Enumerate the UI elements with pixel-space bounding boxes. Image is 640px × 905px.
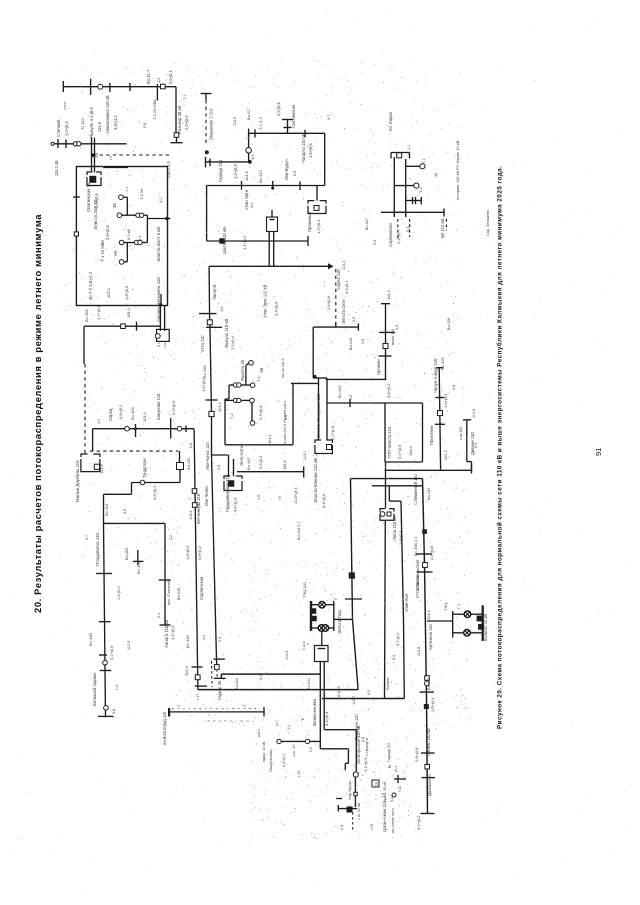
svg-text:7: 7 — [237, 708, 241, 710]
svg-text:Вл.440: Вл.440 — [349, 338, 353, 350]
svg-text:5: 5 — [240, 720, 244, 722]
svg-text:Т-2 25 МВА: Т-2 25 МВА — [152, 99, 157, 120]
svg-text:113,2: 113,2 — [217, 402, 222, 412]
svg-text:Вл.454: Вл.454 — [130, 406, 135, 420]
svg-text:0,4: 0,4 — [474, 443, 478, 448]
svg-text:3,4: 3,4 — [249, 202, 254, 208]
svg-text:Вл.441: Вл.441 — [307, 678, 311, 690]
svg-text:Элиста ТЭЦ: Элиста ТЭЦ — [337, 609, 342, 634]
svg-text:КалмЭС 10 кВ: КалмЭС 10 кВ — [483, 614, 488, 641]
svg-text:Сар. Зельмень: Сар. Зельмень — [486, 210, 490, 236]
svg-text:Вл.442: Вл.442 — [337, 384, 342, 398]
svg-text:0,8: 0,8 — [143, 123, 147, 128]
svg-text:Элиста Сити: Элиста Сити — [341, 299, 346, 324]
svg-text:Яшкульская: Яшкульская — [268, 750, 273, 772]
svg-text:Тундутово: Тундутово — [142, 457, 147, 478]
svg-text:110,9: 110,9 — [408, 446, 413, 456]
svg-text:12,8+j3,4: 12,8+j3,4 — [293, 487, 298, 504]
svg-text:112,4: 112,4 — [106, 288, 111, 298]
svg-text:Г: Г — [334, 598, 338, 600]
svg-text:на Волгоград 110: на Волгоград 110 — [162, 711, 167, 745]
svg-text:1,8+j0,5: 1,8+j0,5 — [337, 686, 341, 700]
svg-text:0,8+j0,2: 0,8+j0,2 — [118, 404, 123, 419]
svg-text:Вл.448: Вл.448 — [88, 632, 93, 646]
svg-text:Вл.452: Вл.452 — [136, 560, 141, 574]
svg-text:Состинская: Состинская — [291, 104, 296, 128]
svg-text:ТЭЦ 110: ТЭЦ 110 — [302, 581, 307, 598]
svg-text:0,6+j0,1: 0,6+j0,1 — [152, 485, 157, 500]
svg-text:0,6: 0,6 — [373, 240, 377, 245]
svg-text:1,1+j0,3: 1,1+j0,3 — [170, 625, 175, 640]
svg-text:Цаган-Аман 110: Цаган-Аман 110 — [382, 800, 387, 832]
svg-text:0,4: 0,4 — [340, 825, 344, 830]
svg-text:Джалыково: Джалыково — [427, 774, 432, 796]
svg-text:на прим. 110 кВ РУ Наран 10 кВ: на прим. 110 кВ РУ Наран 10 кВ — [455, 140, 460, 200]
svg-text:прим. 10 кВ: прим. 10 кВ — [262, 741, 266, 762]
svg-text:Вл.415: Вл.415 — [258, 169, 263, 183]
svg-text:Лола 110 кВ: Лола 110 кВ — [392, 516, 397, 540]
svg-text:Улан-Хол: Улан-Хол — [404, 593, 409, 612]
svg-text:0,4: 0,4 — [259, 675, 263, 680]
svg-text:Ики-Бурул: Ики-Бурул — [284, 159, 289, 180]
svg-text:Приманыч: Приманыч — [307, 212, 312, 232]
svg-text:Яшкуль 4,1-j0,9: Яшкуль 4,1-j0,9 — [89, 107, 94, 138]
svg-text:115,2 кВ: 115,2 кВ — [54, 160, 59, 176]
svg-text:0,9+j0,2: 0,9+j0,2 — [416, 815, 421, 830]
svg-text:Николаевка 110 кВ: Николаевка 110 кВ — [105, 95, 110, 133]
svg-text:1,4: 1,4 — [395, 325, 399, 330]
svg-text:1,5: 1,5 — [257, 495, 261, 500]
svg-text:4: 4 — [232, 708, 236, 710]
svg-text:Вл.41-7: Вл.41-7 — [146, 69, 151, 84]
svg-text:0,3: 0,3 — [406, 227, 410, 232]
svg-text:Приютное: Приютное — [429, 425, 434, 445]
svg-text:Вл.443 0,7: Вл.443 0,7 — [297, 522, 301, 540]
svg-text:91: 91 — [594, 448, 603, 456]
svg-text:Разъезд 48 кВ: Разъезд 48 кВ — [177, 106, 182, 134]
svg-text:Ханата 110 кВ: Ханата 110 кВ — [164, 620, 169, 648]
svg-text:от шин 2x2,5 Яшалта расч.: от шин 2x2,5 Яшалта расч. — [283, 400, 287, 445]
svg-text:5: 5 — [213, 720, 217, 722]
svg-text:4,2: 4,2 — [97, 419, 101, 424]
svg-text:Т-1 10 МВА: Т-1 10 МВА — [100, 240, 105, 262]
svg-text:Т-2 16: Т-2 16 — [139, 189, 144, 200]
svg-text:1,3+j0,4: 1,3+j0,4 — [258, 405, 263, 420]
svg-text:ТЭЦ: ТЭЦ — [443, 603, 448, 611]
svg-text:4: 4 — [215, 708, 219, 710]
svg-text:1,1+j0,2: 1,1+j0,2 — [242, 235, 247, 250]
svg-text:0,9: 0,9 — [123, 509, 127, 514]
svg-text:т.3: т.3 — [109, 156, 113, 160]
svg-text:4: 4 — [193, 708, 197, 710]
svg-text:т.9: т.9 — [278, 496, 282, 500]
svg-text:112,7: 112,7 — [352, 696, 356, 705]
svg-text:Вл.417: Вл.417 — [247, 108, 251, 120]
svg-text:113,6: 113,6 — [282, 460, 287, 470]
svg-text:1,2: 1,2 — [156, 78, 161, 83]
svg-text:Т-2: Т-2 — [230, 413, 234, 419]
svg-text:1,2+j0,4: 1,2+j0,4 — [64, 121, 69, 136]
svg-text:Сарпинская: Сарпинская — [388, 222, 393, 247]
svg-text:115,4: 115,4 — [386, 290, 391, 300]
svg-text:1,7+j0,4: 1,7+j0,4 — [96, 305, 101, 320]
svg-text:114,2: 114,2 — [342, 261, 346, 270]
svg-text:2,4+j0,7: 2,4+j0,7 — [396, 229, 401, 244]
svg-text:Элиста Зап 35: Элиста Зап 35 — [93, 199, 98, 230]
svg-text:0,9-j0,1: 0,9-j0,1 — [344, 280, 349, 294]
svg-text:Большой Царын: Большой Царын — [92, 672, 97, 706]
svg-text:2,8+j0,8: 2,8+j0,8 — [414, 747, 419, 762]
svg-text:Чагорта: Чагорта — [212, 284, 217, 300]
svg-text:0,9+j0,2: 0,9+j0,2 — [197, 546, 202, 560]
svg-text:о: о — [188, 708, 192, 710]
svg-text:113,4: 113,4 — [189, 511, 193, 520]
svg-text:1,9: 1,9 — [250, 155, 255, 160]
svg-text:8,4+j2,6: 8,4+j2,6 — [321, 493, 326, 508]
svg-text:Сарпинская: Сарпинская — [199, 577, 204, 600]
svg-text:0,3+j0,1: 0,3+j0,1 — [282, 753, 286, 767]
svg-text:Чагорта 110 кВ: Чагорта 110 кВ — [301, 133, 306, 163]
svg-text:0,7: 0,7 — [326, 115, 331, 120]
svg-text:2,0+j0,5: 2,0+j0,5 — [171, 400, 176, 415]
svg-text:1,4+j0,3: 1,4+j0,3 — [233, 164, 238, 179]
svg-text:7: 7 — [226, 708, 230, 710]
svg-text:114,6: 114,6 — [97, 121, 102, 132]
svg-text:0,4: 0,4 — [157, 613, 161, 618]
svg-text:0,5: 0,5 — [367, 690, 371, 695]
svg-text:0,8: 0,8 — [112, 709, 116, 714]
svg-text:Г-1: Г-1 — [457, 604, 461, 609]
svg-text:3,1+j0,9: 3,1+j0,9 — [397, 444, 402, 459]
svg-text:1,2: 1,2 — [243, 705, 247, 710]
svg-text:113,9: 113,9 — [233, 117, 237, 126]
svg-text:т.49: т.49 — [297, 771, 301, 777]
svg-text:1,1+j0,3: 1,1+j0,3 — [363, 757, 368, 772]
svg-text:2,0: 2,0 — [352, 317, 356, 322]
svg-text:Вл.438 2,2: Вл.438 2,2 — [413, 536, 418, 556]
svg-text:Плодовитое 110: Плодовитое 110 — [95, 532, 100, 566]
svg-text:2,8+j0,8: 2,8+j0,8 — [326, 296, 331, 310]
svg-text:Годжур 110: Годжур 110 — [218, 159, 223, 182]
svg-text:2: 2 — [246, 720, 250, 722]
svg-text:113,9: 113,9 — [142, 412, 147, 422]
svg-text:Вл.453: Вл.453 — [125, 548, 129, 560]
svg-text:115,0: 115,0 — [126, 308, 131, 318]
svg-text:1,1: 1,1 — [125, 187, 129, 192]
svg-text:Рисунок 20. Схема потокораспре: Рисунок 20. Схема потокораспределения дл… — [496, 166, 504, 729]
svg-text:на схеме лето: на схеме лето — [391, 808, 395, 833]
svg-text:3,8+j1,2: 3,8+j1,2 — [113, 115, 118, 130]
svg-text:112,2: 112,2 — [443, 450, 448, 460]
svg-text:Шатта 110 кВ: Шатта 110 кВ — [222, 227, 227, 254]
svg-text:38: 38 — [112, 203, 117, 208]
svg-text:Вл.451: Вл.451 — [104, 502, 109, 516]
svg-text:4: 4 — [254, 708, 258, 710]
svg-text:114,4: 114,4 — [426, 610, 431, 620]
svg-text:Элиста Вост 6 кВ: Элиста Вост 6 кВ — [156, 227, 161, 262]
svg-text:ВЛ 110 кВ: ВЛ 110 кВ — [440, 219, 445, 238]
svg-text:1,2: 1,2 — [349, 395, 353, 400]
svg-text:1,6+j0,5: 1,6+j0,5 — [308, 143, 313, 158]
svg-text:Элиста Северная 110: Элиста Северная 110 — [316, 393, 321, 438]
svg-text:1,6+j0,4: 1,6+j0,4 — [430, 697, 435, 712]
svg-text:Вл.450: Вл.450 — [186, 457, 191, 470]
svg-text:Вл.428: Вл.428 — [447, 318, 451, 330]
svg-text:1,0+j0,3: 1,0+j0,3 — [443, 393, 448, 408]
svg-text:с.ш. 10: с.ш. 10 — [292, 745, 296, 757]
svg-text:Т-1: Т-1 — [183, 94, 187, 100]
svg-text:Годжур 10: Годжур 10 — [386, 742, 391, 762]
svg-text:Сост. 2,4: Сост. 2,4 — [166, 161, 171, 178]
svg-text:2: 2 — [218, 720, 222, 722]
svg-text:Оргакин: Оргакин — [376, 360, 381, 375]
svg-text:н: н — [204, 708, 208, 710]
svg-text:ГПП Элиста 110: ГПП Элиста 110 — [387, 426, 392, 458]
svg-text:Троицкое 110: Троицкое 110 — [354, 714, 359, 740]
svg-text:2,2: 2,2 — [169, 535, 173, 540]
svg-text:113,1: 113,1 — [303, 451, 307, 460]
svg-text:Малые Дербеты 110: Малые Дербеты 110 — [75, 460, 80, 502]
svg-text:114,0: 114,0 — [472, 409, 476, 418]
svg-text:Т2 110: Т2 110 — [80, 117, 85, 130]
svg-text:уз.7: уз.7 — [275, 720, 279, 726]
svg-text:113,3: 113,3 — [285, 651, 289, 660]
svg-text:0,5-j0,1: 0,5-j0,1 — [168, 70, 173, 84]
svg-text:в: в — [171, 708, 175, 710]
svg-text:3,4+j0,9: 3,4+j0,9 — [274, 301, 279, 316]
svg-text:112,9: 112,9 — [127, 641, 131, 650]
svg-text:Лагань 110 кВ: Лагань 110 кВ — [426, 728, 431, 756]
svg-text:5: 5 — [207, 720, 211, 722]
svg-text:18: 18 — [374, 782, 379, 786]
svg-text:Элиста Южная 110 кВ: Элиста Южная 110 кВ — [313, 458, 318, 503]
svg-text:1,4+j0,4: 1,4+j0,4 — [324, 711, 329, 726]
svg-text:Вл.449: Вл.449 — [177, 588, 181, 600]
svg-text:3,1: 3,1 — [157, 342, 161, 347]
svg-text:Вл.444: Вл.444 — [235, 678, 239, 690]
svg-text:2: 2 — [306, 643, 310, 645]
svg-text:2,1+j0,6: 2,1+j0,6 — [429, 546, 434, 560]
svg-text:расч.: расч. — [257, 728, 261, 737]
svg-text:113,0: 113,0 — [184, 666, 189, 676]
svg-text:Чолун-Хамур 110: Чолун-Хамур 110 — [433, 358, 438, 393]
svg-text:2,4: 2,4 — [218, 637, 222, 642]
svg-text:Ергени: Ергени — [385, 677, 390, 690]
svg-text:0,4: 0,4 — [138, 236, 142, 241]
svg-text:Т-1: Т-1 — [422, 158, 426, 164]
svg-text:КС Наран: КС Наран — [388, 111, 393, 131]
svg-text:Эсто-Алтай: Эсто-Алтай — [239, 443, 244, 466]
svg-text:Н9: Н9 — [113, 250, 118, 256]
svg-text:с: с — [182, 708, 186, 710]
svg-text:Т-2: Т-2 — [419, 187, 423, 193]
svg-text:с.Цекерта: с.Цекерта — [364, 737, 369, 756]
svg-text:Вл.427: Вл.427 — [365, 218, 369, 230]
svg-text:Т-1 6,3: Т-1 6,3 — [258, 117, 263, 130]
svg-text:пр.Т-2 3,8+j1,2: пр.Т-2 3,8+j1,2 — [88, 271, 93, 300]
svg-text:1,9+j0,5: 1,9+j0,5 — [201, 377, 206, 392]
svg-text:1,8: 1,8 — [95, 153, 99, 158]
svg-text:Степной: Степной — [56, 119, 61, 137]
svg-text:в: в — [221, 708, 225, 710]
svg-text:с.ш. 10 кВ: с.ш. 10 кВ — [357, 802, 361, 820]
svg-text:Вл.447: Вл.447 — [246, 456, 251, 470]
svg-text:2,2+j0,6: 2,2+j0,6 — [109, 645, 114, 660]
svg-text:0,8: 0,8 — [452, 385, 456, 390]
svg-text:Вл.446: Вл.446 — [202, 364, 207, 378]
svg-text:2,2-j0,4: 2,2-j0,4 — [276, 102, 281, 116]
svg-text:2,6: 2,6 — [189, 443, 193, 448]
svg-text:Ики-Чонос: Ики-Чонос — [204, 486, 209, 506]
svg-text:Т-1: Т-1 — [257, 376, 261, 382]
svg-text:пос. Степной: пос. Степной — [166, 581, 171, 605]
svg-text:1,4+j0,4: 1,4+j0,4 — [398, 530, 403, 545]
svg-text:6,3 кВ: 6,3 кВ — [126, 229, 131, 240]
svg-text:1,2: 1,2 — [202, 635, 206, 640]
svg-text:Сарпа 110: Сарпа 110 — [336, 269, 341, 290]
svg-text:0,7-j0,2: 0,7-j0,2 — [395, 632, 400, 646]
svg-text:согл.: согл. — [62, 101, 67, 110]
svg-text:Оватинская 35: Оватинская 35 — [86, 182, 91, 212]
svg-text:Хар-Булук: Хар-Булук — [347, 781, 352, 800]
svg-text:0,8+j0,2: 0,8+j0,2 — [386, 383, 391, 398]
svg-text:Городовиковск 110: Городовиковск 110 — [225, 474, 230, 512]
svg-text:с.Лиманный 110: с.Лиманный 110 — [413, 474, 418, 505]
svg-text:Вл.434: Вл.434 — [426, 487, 431, 500]
svg-text:1,6: 1,6 — [219, 307, 224, 312]
svg-text:Смушково 2 110: Смушково 2 110 — [209, 108, 214, 140]
svg-text:2,2: 2,2 — [287, 725, 291, 730]
svg-text:112,8: 112,8 — [99, 464, 104, 474]
svg-text:4,2: 4,2 — [158, 197, 163, 203]
svg-text:Вл.445: Вл.445 — [185, 634, 190, 648]
svg-text:2,2+j0,6: 2,2+j0,6 — [184, 115, 189, 130]
svg-text:1,2: 1,2 — [177, 705, 181, 710]
svg-text:20. Результаты расчетов потоко: 20. Результаты расчетов потокораспределе… — [32, 214, 43, 613]
svg-text:0,2: 0,2 — [390, 797, 394, 802]
svg-text:прим. 35 кВ: прим. 35 кВ — [383, 781, 387, 802]
svg-text:Б: Б — [387, 765, 392, 768]
svg-text:уз.4: уз.4 — [394, 766, 398, 772]
svg-text:с.ш.: с.ш. — [163, 342, 167, 348]
svg-text:Артезиан 110: Артезиан 110 — [428, 623, 433, 650]
svg-text:на сш 2х2,5: на сш 2х2,5 — [281, 359, 285, 378]
svg-text:0,3: 0,3 — [392, 655, 396, 660]
svg-text:т.17: т.17 — [196, 694, 200, 700]
svg-text:1,2+j0,3: 1,2+j0,3 — [316, 219, 321, 234]
svg-text:ЗБ: ЗБ — [259, 367, 264, 373]
svg-text:0,9-j0,2: 0,9-j0,2 — [258, 455, 263, 469]
svg-text:Комсомольский: Комсомольский — [415, 560, 420, 590]
svg-text:2,4: 2,4 — [217, 465, 221, 470]
svg-text:0,7: 0,7 — [85, 535, 89, 540]
svg-text:7: 7 — [210, 708, 214, 710]
svg-text:1,8+j0,6: 1,8+j0,6 — [124, 285, 129, 300]
svg-text:Вл.456: Вл.456 — [84, 308, 89, 322]
svg-text:Вл.429: Вл.429 — [440, 356, 445, 370]
svg-text:1,4+j0,4: 1,4+j0,4 — [117, 586, 121, 600]
svg-text:6,2+j1,8: 6,2+j1,8 — [330, 425, 335, 440]
svg-text:л: л — [224, 720, 228, 722]
svg-text:Яшкуль 110 кВ: Яшкуль 110 кВ — [224, 319, 229, 348]
svg-text:1,1: 1,1 — [407, 145, 411, 150]
svg-text:с.ш.110: с.ш.110 — [458, 426, 463, 440]
svg-text:114,8: 114,8 — [244, 171, 249, 181]
svg-text:2: 2 — [229, 720, 233, 722]
svg-text:Ики-Чонос 110: Ики-Чонос 110 — [205, 442, 210, 470]
svg-text:Сарпа: Сарпа — [108, 408, 113, 421]
svg-text:Кетченеры 110: Кетченеры 110 — [196, 493, 201, 524]
svg-text:т.11: т.11 — [115, 684, 119, 690]
svg-text:т.12: т.12 — [398, 786, 402, 792]
svg-text:114,1: 114,1 — [267, 434, 272, 444]
svg-text:0,9: 0,9 — [293, 171, 297, 176]
svg-text:Аршань-Зельмень 110: Аршань-Зельмень 110 — [156, 277, 161, 322]
svg-text:Утта 110: Утта 110 — [200, 335, 205, 352]
svg-text:2,4+j0,8: 2,4+j0,8 — [105, 225, 110, 240]
svg-text:Яшалта 35: Яшалта 35 — [240, 359, 245, 381]
svg-text:Вл.432: Вл.432 — [427, 678, 431, 690]
svg-text:1,8+j0,5: 1,8+j0,5 — [185, 545, 190, 560]
svg-text:4: 4 — [248, 708, 252, 710]
svg-text:113,8: 113,8 — [417, 647, 421, 656]
svg-text:1,3+j0,4: 1,3+j0,4 — [230, 335, 235, 350]
svg-text:Улан Эрге 110 кВ: Улан Эрге 110 кВ — [263, 284, 268, 318]
svg-text:4,6+j1,4: 4,6+j1,4 — [233, 497, 238, 512]
svg-text:0,2: 0,2 — [309, 747, 313, 752]
svg-text:Кануково 110: Кануково 110 — [156, 393, 161, 420]
svg-text:4: 4 — [199, 708, 203, 710]
